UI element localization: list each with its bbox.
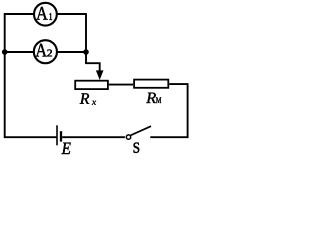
wire battery to switch	[62, 136, 125, 138]
battery E short plate	[60, 131, 62, 141]
label subscript 2 (ammeter A2)	[47, 50, 52, 57]
wire A2 parallel branch row	[5, 51, 86, 53]
rheostat Rx box	[75, 81, 108, 89]
label R (rheostat Rx)	[80, 93, 89, 103]
junction node left (A2 tap)	[2, 49, 8, 55]
battery E long plate	[56, 125, 58, 145]
wire right vertical of ammeter loop, to rheostat wiper	[86, 13, 100, 72]
label S (switch)	[134, 143, 140, 153]
ammeter A1 circle	[34, 3, 57, 26]
resistor RM box	[134, 80, 168, 88]
wiper arrowhead onto Rx	[96, 70, 104, 80]
label A (ammeter A1)	[36, 7, 48, 20]
switch S pivot circle	[126, 135, 130, 139]
label subscript M (resistor RM)	[156, 97, 161, 103]
wire top side + left side + bottom-left run to battery	[5, 14, 86, 137]
switch S lever	[131, 126, 151, 135]
label A (ammeter A2)	[35, 44, 46, 57]
label subscript x (rheostat Rx)	[92, 101, 96, 105]
label subscript 1 (ammeter A1)	[50, 13, 52, 20]
wire RM to right side, down to switch	[150, 84, 187, 137]
junction node right (A2 tap)	[83, 49, 89, 55]
label R (resistor RM)	[146, 93, 156, 103]
wire Rx to RM	[109, 84, 133, 86]
ammeter A2 circle	[34, 40, 57, 63]
label E (battery)	[62, 143, 71, 154]
